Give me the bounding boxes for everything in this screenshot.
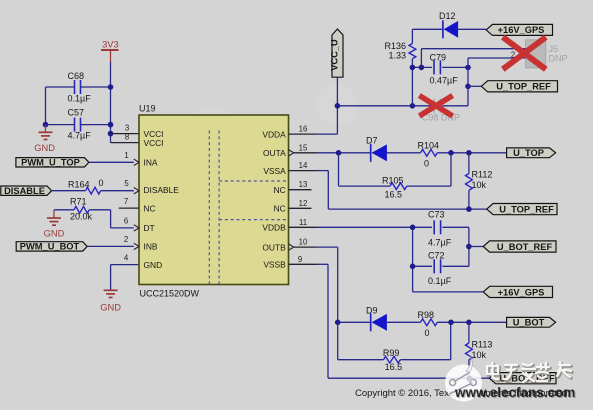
svg-text:C57: C57 <box>68 108 85 118</box>
faint background watermark ring <box>193 84 358 149</box>
svg-text:UCC21520DW: UCC21520DW <box>140 289 200 299</box>
pin 11 stub VDDB <box>289 218 318 228</box>
ground GND (caps) <box>34 125 55 153</box>
capacitor C98 DNP (grayed) <box>422 99 460 123</box>
svg-text:C72: C72 <box>428 251 445 261</box>
resistor R112 <box>466 153 493 209</box>
pin 5 DISABLE arrow <box>124 179 139 194</box>
flag U_TOP <box>507 148 556 158</box>
wire R71 to DT <box>111 210 134 228</box>
pin 12 NC stub <box>289 199 312 209</box>
wire VSSB to U_BOT_REF <box>318 264 490 378</box>
capacitor C79 <box>412 53 468 86</box>
resistor R99 loop <box>338 322 451 372</box>
svg-text:NC: NC <box>274 204 286 214</box>
wire to U_TOP_REF flag <box>468 85 481 87</box>
node VDDB junctions <box>410 225 472 270</box>
svg-text:0: 0 <box>424 159 429 169</box>
svg-text:D9: D9 <box>366 306 378 316</box>
svg-text:D7: D7 <box>366 136 378 146</box>
svg-text:U_TOP: U_TOP <box>513 148 544 158</box>
svg-text:0: 0 <box>99 178 104 188</box>
svg-text:U_TOP_REF: U_TOP_REF <box>496 82 551 92</box>
IC right pin names <box>262 129 286 269</box>
flag U_TOP_REF mid <box>487 204 557 215</box>
svg-text:VSSB: VSSB <box>263 260 286 270</box>
diode D12 <box>412 11 486 38</box>
flag VCC_U vertical <box>330 29 344 77</box>
svg-text:5: 5 <box>124 179 129 188</box>
capacitor C68 <box>46 71 111 104</box>
svg-text:16.5: 16.5 <box>385 190 403 200</box>
svg-text:U_BOT: U_BOT <box>513 318 545 328</box>
node U_TOP_REF mid junction <box>466 206 472 212</box>
svg-text:U_BOT_REF: U_BOT_REF <box>497 242 553 252</box>
resistor R98 <box>418 310 508 338</box>
ground GND (pin4) <box>100 290 121 312</box>
pin 1 INA arrow <box>124 151 139 166</box>
svg-text:3V3: 3V3 <box>102 40 119 50</box>
svg-text:16: 16 <box>299 125 308 134</box>
pin 14 stub VSSA <box>289 161 318 171</box>
svg-text:VDDB: VDDB <box>262 223 286 233</box>
resistor R71 <box>54 197 111 222</box>
watermark logo circle <box>445 356 482 402</box>
svg-text:16.5: 16.5 <box>385 362 403 372</box>
isolation barrier dashed lines <box>209 131 288 285</box>
svg-text:GND: GND <box>144 260 163 270</box>
svg-text:J5: J5 <box>549 44 559 54</box>
capacitor C57 <box>46 108 111 141</box>
wire to +16V_GPS bottom <box>413 291 484 293</box>
watermark url text <box>454 385 576 401</box>
svg-text:VSSA: VSSA <box>263 166 286 176</box>
svg-text:NC: NC <box>144 203 156 213</box>
svg-text:15: 15 <box>299 143 308 152</box>
svg-text:10k: 10k <box>472 350 487 360</box>
svg-text:C73: C73 <box>428 210 445 220</box>
svg-text:GND: GND <box>34 143 55 153</box>
capacitor C73 <box>428 210 469 248</box>
svg-text:0.47µF: 0.47µF <box>430 76 459 86</box>
svg-text:+16V_GPS: +16V_GPS <box>498 287 545 297</box>
svg-text:4.7µF: 4.7µF <box>428 238 452 248</box>
svg-text:12: 12 <box>299 199 308 208</box>
flag U_BOT_REF bottom <box>489 373 556 384</box>
wire J5 pin1 <box>421 49 525 68</box>
wire VDDB <box>318 226 433 228</box>
svg-text:1: 1 <box>124 151 128 160</box>
flag U_BOT_REF mid <box>483 241 556 252</box>
wire VCC_U down <box>336 77 338 106</box>
svg-text:10k: 10k <box>472 180 487 190</box>
pin 10 OUTB arrow stub <box>289 238 318 251</box>
svg-text:2: 2 <box>124 235 128 244</box>
capacitor C72 <box>413 251 469 287</box>
svg-text:GND: GND <box>100 303 121 313</box>
flag DISABLE <box>1 186 52 196</box>
svg-text:U19: U19 <box>139 104 156 114</box>
svg-text:1.33: 1.33 <box>388 51 406 61</box>
resistor R104 <box>418 141 508 169</box>
svg-text:11: 11 <box>299 218 307 227</box>
node C79 junctions <box>410 65 471 71</box>
pin 16 stub and wire VDDA <box>289 106 338 134</box>
svg-text:NC: NC <box>274 185 286 195</box>
svg-text:C79: C79 <box>430 53 447 63</box>
svg-text:OUTB: OUTB <box>262 242 286 252</box>
wire OUTB down <box>318 247 371 322</box>
node OUTB junctions <box>335 320 472 326</box>
svg-text:14: 14 <box>299 161 308 170</box>
resistor R164 <box>52 178 134 194</box>
node VCC_U junctions <box>335 103 416 109</box>
svg-text:INB: INB <box>144 242 158 252</box>
svg-text:13: 13 <box>299 180 308 189</box>
svg-text:OUTA: OUTA <box>263 148 286 158</box>
svg-text:R136: R136 <box>384 41 406 51</box>
svg-text:D12: D12 <box>439 11 456 21</box>
svg-text:PWM_U_BOT: PWM_U_BOT <box>20 242 80 252</box>
flag U_TOP_REF top <box>481 81 557 92</box>
node OUTA junctions <box>336 150 472 156</box>
svg-text:C68: C68 <box>68 71 85 81</box>
node U_TOP_REF top junction <box>465 84 471 90</box>
svg-text:9: 9 <box>298 255 302 264</box>
DNP X over C98 <box>419 96 452 117</box>
pin 8 stub <box>111 133 140 143</box>
diode D7 <box>366 136 421 162</box>
pin 13 NC stub <box>289 180 312 190</box>
svg-text:GND: GND <box>44 229 65 239</box>
pin 6 DT arrow <box>124 217 139 232</box>
pin 15 OUTA arrow stub <box>289 143 318 156</box>
svg-text:8: 8 <box>125 133 129 142</box>
svg-text:R112: R112 <box>472 170 493 180</box>
svg-text:DT: DT <box>144 223 155 233</box>
svg-text:R71: R71 <box>70 197 87 207</box>
wire to U_BOT_REF flag <box>469 246 483 248</box>
svg-text:DISABLE: DISABLE <box>144 185 180 195</box>
svg-text:DNP: DNP <box>549 54 568 64</box>
pin 7 NC stub <box>119 197 139 208</box>
wire 3V3 to VCCI <box>110 62 112 143</box>
op-amp U1 placeholder replaced: IC U19 body <box>139 104 289 299</box>
svg-text:www.elecfans.com: www.elecfans.com <box>454 385 575 400</box>
resistor R105 loop <box>339 153 452 200</box>
svg-text:20.0k: 20.0k <box>70 212 93 222</box>
svg-text:+16V_GPS: +16V_GPS <box>498 25 545 35</box>
ground GND (R71) <box>44 210 65 239</box>
pin 2 INB arrow <box>124 235 139 250</box>
svg-text:PWM_U_TOP: PWM_U_TOP <box>21 158 80 168</box>
svg-text:INA: INA <box>144 158 158 168</box>
svg-text:0: 0 <box>425 328 430 338</box>
wire VSSA to U_TOP_REF <box>318 171 487 210</box>
wire GND pin4 <box>111 265 139 290</box>
pin 3 stub <box>111 124 140 134</box>
svg-text:R113: R113 <box>472 340 493 350</box>
svg-text:VCCI: VCCI <box>144 138 164 148</box>
wire cap loop verticals <box>413 227 469 292</box>
svg-text:U_TOP_REF: U_TOP_REF <box>499 205 554 215</box>
pin 4 stub <box>124 253 129 262</box>
wire INA <box>89 161 134 163</box>
svg-text:DISABLE: DISABLE <box>4 186 45 196</box>
wire VCC_U row <box>337 105 432 107</box>
wire caps left vertical <box>45 87 47 125</box>
svg-text:0.1µF: 0.1µF <box>68 94 92 104</box>
flag +16V_GPS top <box>486 24 552 35</box>
svg-text:4.7µF: 4.7µF <box>68 131 92 141</box>
svg-text:VCC_U: VCC_U <box>330 39 340 71</box>
diode D9 <box>366 306 421 332</box>
svg-text:4: 4 <box>124 253 129 262</box>
pin 9 stub VSSB <box>289 255 318 265</box>
watermark chinese text 电子发烧友 <box>487 362 572 383</box>
flag U_BOT <box>507 317 556 327</box>
connector J5 <box>526 40 568 68</box>
flag PWM_U_BOT <box>16 242 87 252</box>
wire OUTA <box>318 152 371 154</box>
svg-text:VDDA: VDDA <box>262 129 286 139</box>
svg-text:6: 6 <box>124 217 128 226</box>
flag +16V_GPS bottom <box>483 286 552 297</box>
flag PWM_U_TOP <box>16 158 89 168</box>
power symbol 3V3 <box>101 40 119 63</box>
svg-text:R104: R104 <box>418 141 440 151</box>
svg-text:0.1µF: 0.1µF <box>428 276 452 286</box>
svg-text:3: 3 <box>125 124 129 133</box>
resistor R113 <box>466 322 493 378</box>
IC left pin names <box>144 129 180 270</box>
resistor R136 vertical <box>384 29 415 106</box>
wire INB <box>87 245 134 247</box>
node junction dots top-left <box>43 84 114 136</box>
DNP X over J5 <box>503 37 546 69</box>
wire J5 pin2 <box>468 58 526 106</box>
svg-text:10: 10 <box>299 238 308 247</box>
svg-text:7: 7 <box>124 197 128 206</box>
node U_BOT_REF bottom junction <box>466 375 472 381</box>
